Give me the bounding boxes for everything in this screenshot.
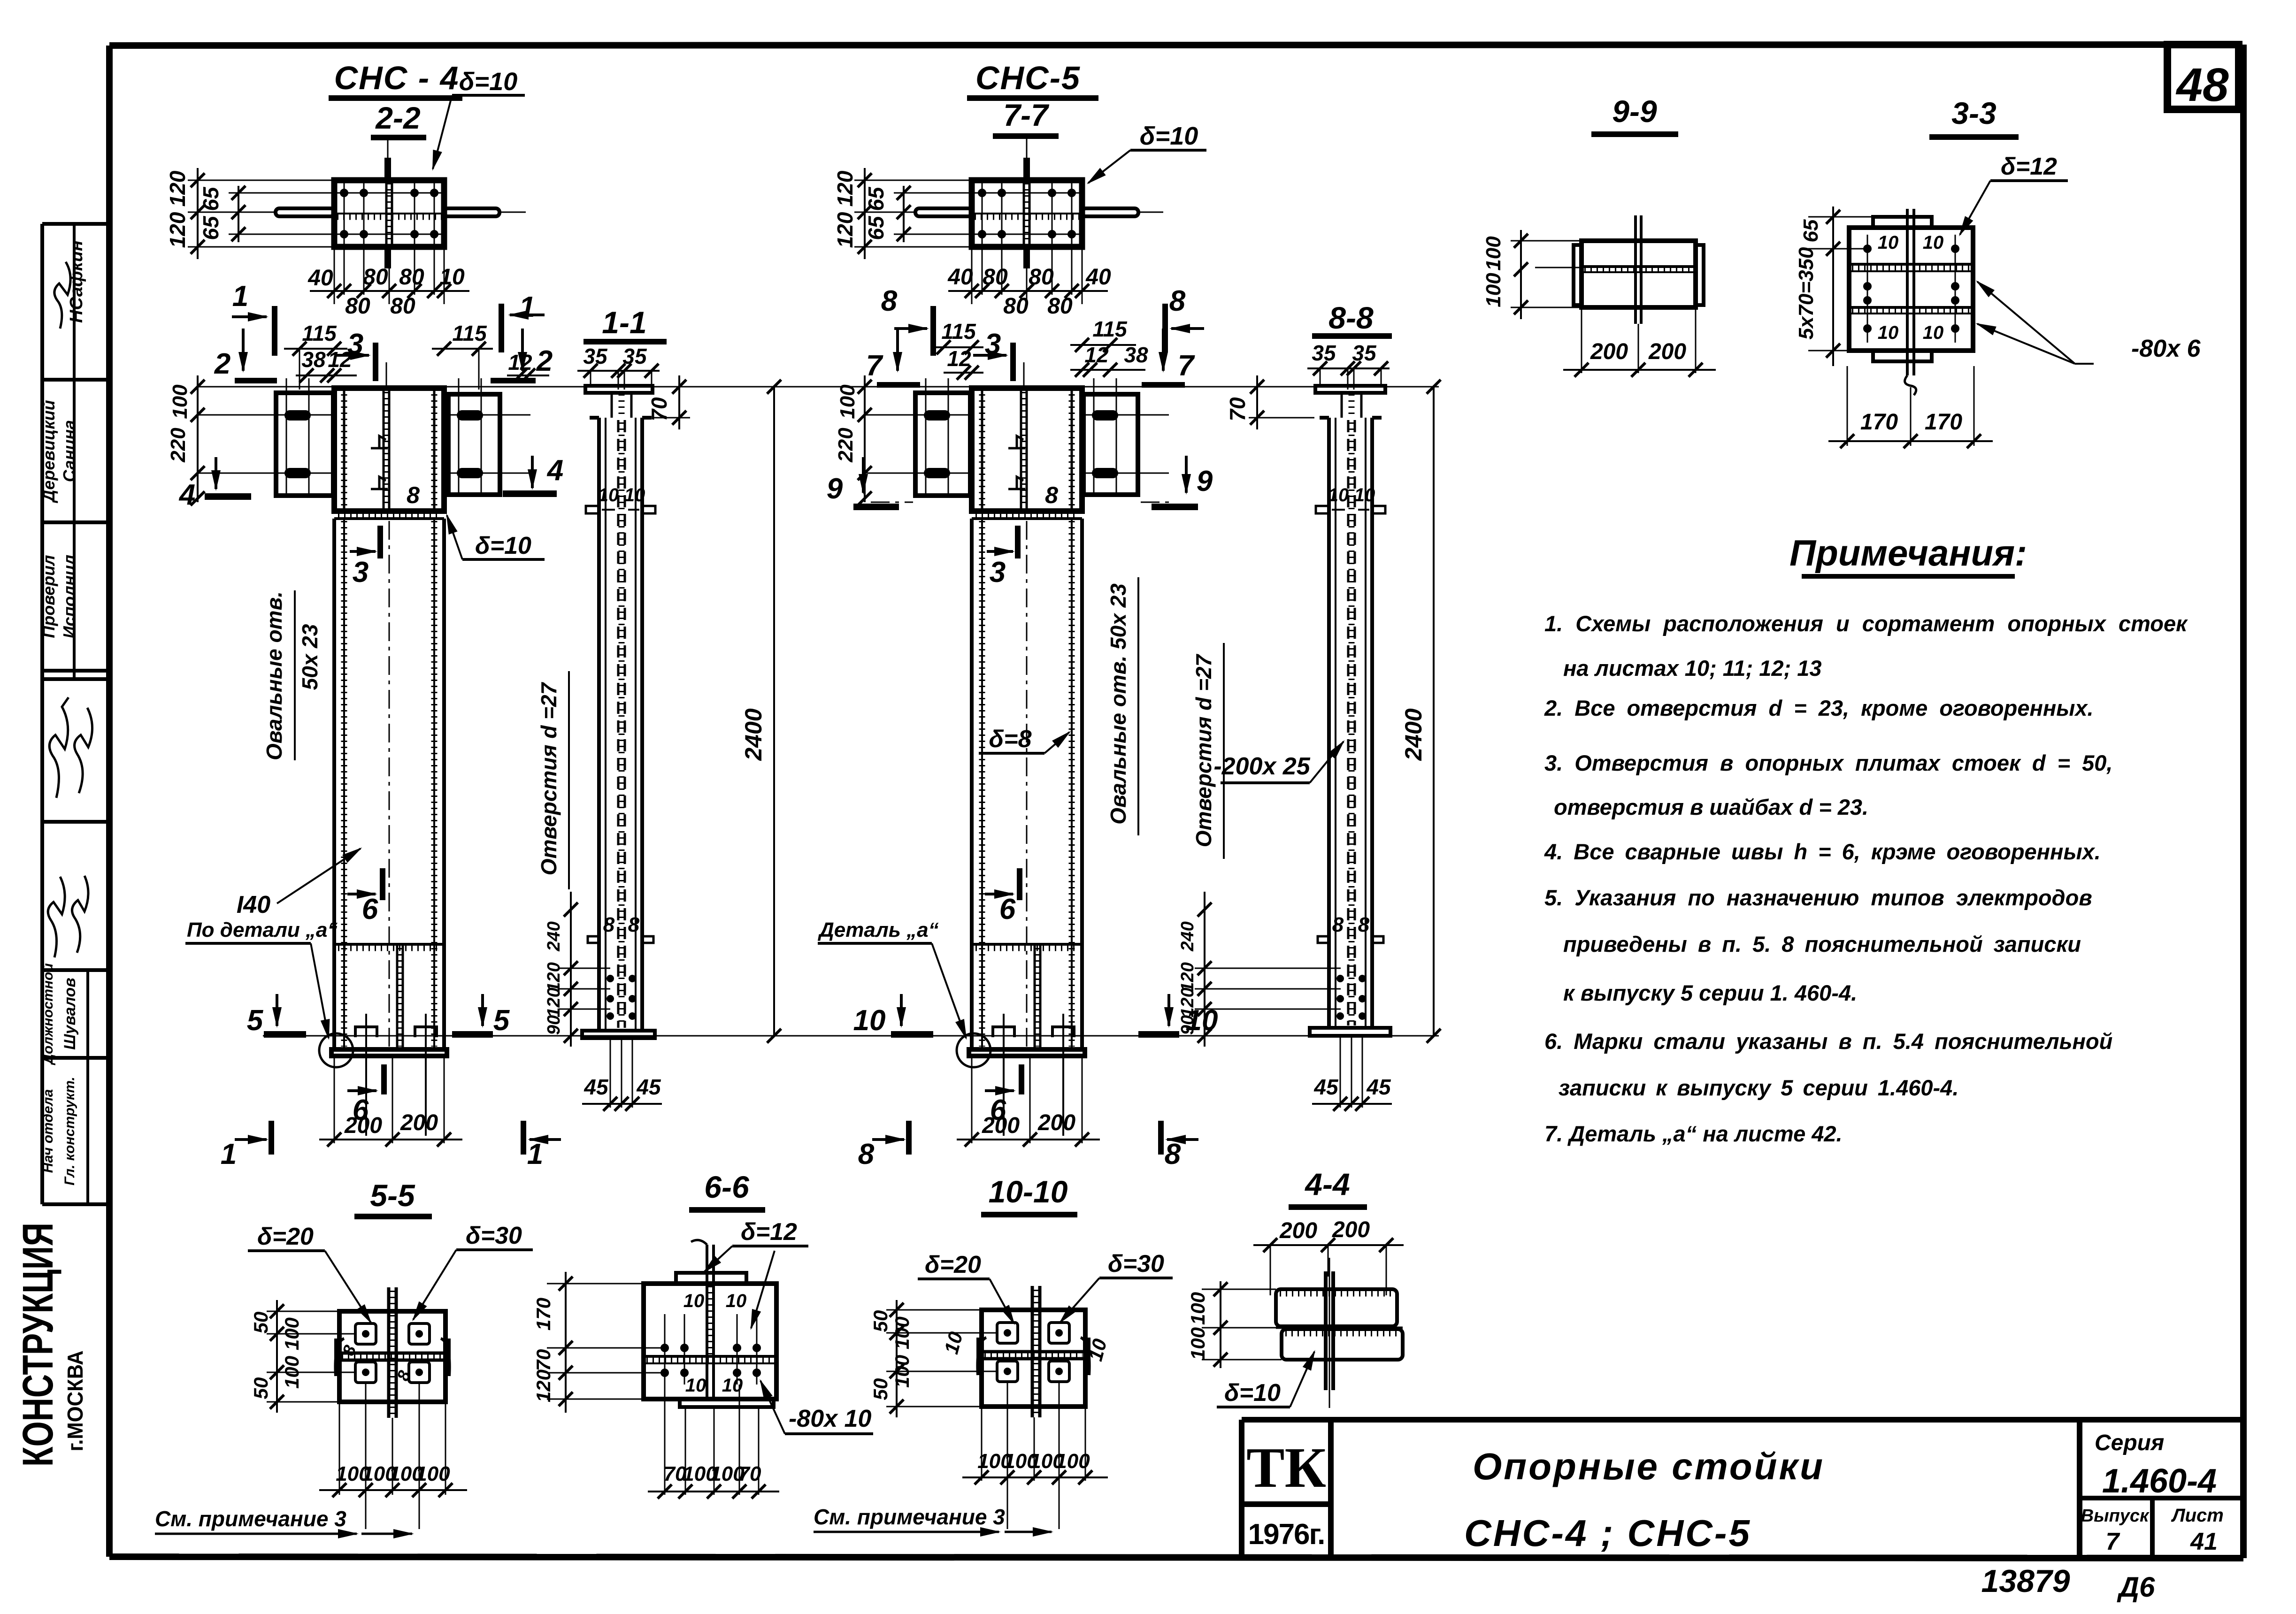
svg-text:Проверил: Проверил xyxy=(39,555,58,638)
4-4 bottom slab xyxy=(1282,1329,1403,1360)
svg-text:I40: I40 xyxy=(237,891,270,918)
page number box 48 xyxy=(2167,45,2239,111)
stamp row lines xyxy=(42,222,109,226)
svg-text:Гл. конструкт.: Гл. конструкт. xyxy=(62,1077,77,1186)
svg-text:7. Деталь „а“ на листе 42: 7. Деталь „а“ на листе 42. xyxy=(1544,1121,1843,1146)
svg-text:48: 48 xyxy=(2175,59,2229,111)
bottom reference line xyxy=(263,1035,1439,1037)
svg-text:240: 240 xyxy=(544,921,564,951)
svg-text:7: 7 xyxy=(866,350,883,382)
svg-text:7: 7 xyxy=(1178,350,1195,382)
svg-text:δ=20: δ=20 xyxy=(925,1251,981,1278)
svg-text:3: 3 xyxy=(990,556,1006,589)
svg-text:δ=30: δ=30 xyxy=(466,1222,522,1249)
svg-text:200: 200 xyxy=(1279,1218,1317,1243)
svg-text:9: 9 xyxy=(1197,465,1213,497)
svg-text:65: 65 xyxy=(864,215,888,240)
neck web xyxy=(1341,393,1343,418)
svg-text:-80х 6: -80х 6 xyxy=(2131,335,2201,362)
3-3 plate stack xyxy=(1849,228,1973,351)
svg-text:Отверстия d =27: Отверстия d =27 xyxy=(537,681,561,875)
svg-text:6-6: 6-6 xyxy=(704,1170,750,1204)
svg-text:8: 8 xyxy=(858,1138,875,1170)
seams xyxy=(1849,263,1973,266)
7-7 base plate xyxy=(972,180,1082,247)
cross vertical bar xyxy=(387,1287,391,1418)
bottom bolt dots xyxy=(607,975,636,1020)
svg-text:35: 35 xyxy=(622,344,647,368)
left dim 100/100 xyxy=(1520,230,1522,319)
detail a circle xyxy=(957,1033,991,1067)
svg-text:10: 10 xyxy=(598,485,619,505)
svg-text:δ=10: δ=10 xyxy=(1224,1379,1281,1407)
svg-text:115: 115 xyxy=(452,321,487,345)
svg-text:3-3: 3-3 xyxy=(1951,96,1996,130)
svg-text:5. Указания по назначени: 5. Указания по назначению типов электрод… xyxy=(1544,885,2092,910)
svg-text:120: 120 xyxy=(833,170,857,207)
left bracket oval holes xyxy=(284,410,311,421)
svg-text:Нач отдела: Нач отдела xyxy=(40,1089,56,1173)
svg-text:200: 200 xyxy=(1037,1110,1075,1135)
svg-text:200: 200 xyxy=(1332,1217,1370,1242)
shaft weld hatch xyxy=(341,521,347,1047)
svg-text:г.МОСКВА: г.МОСКВА xyxy=(63,1351,87,1452)
4-4 top slab xyxy=(1276,1289,1397,1326)
dim 115 left xyxy=(932,346,983,348)
svg-text:10: 10 xyxy=(685,1375,706,1396)
corner washers xyxy=(355,1323,430,1383)
bracket centerline dashes xyxy=(871,502,913,503)
svg-text:220: 220 xyxy=(834,428,857,463)
svg-text:СНС - 4: СНС - 4 xyxy=(334,60,460,96)
svg-text:65: 65 xyxy=(864,186,888,211)
svg-text:80: 80 xyxy=(345,294,370,319)
right bracket ovals xyxy=(457,410,483,421)
svg-text:45: 45 xyxy=(584,1075,609,1099)
svg-text:50: 50 xyxy=(869,1378,891,1400)
svg-text:70: 70 xyxy=(1225,397,1250,421)
svg-text:-200х 25: -200х 25 xyxy=(1213,753,1310,780)
stamp signature row 2 xyxy=(49,697,69,798)
svg-text:2400: 2400 xyxy=(1400,708,1427,761)
svg-text:65: 65 xyxy=(199,215,223,240)
svg-text:записки к выпуску 5 сер: записки к выпуску 5 серии 1.460-4. xyxy=(1559,1075,1958,1100)
bottom flange xyxy=(582,1031,655,1038)
svg-text:10: 10 xyxy=(439,265,465,290)
svg-text:3: 3 xyxy=(353,556,369,589)
2-2 base plate xyxy=(334,180,444,247)
svg-text:6: 6 xyxy=(999,893,1016,926)
svg-text:4-4: 4-4 xyxy=(1304,1167,1350,1201)
left dims 50/100/100/50 xyxy=(276,1300,278,1413)
svg-text:1: 1 xyxy=(232,280,248,313)
10-10 plate xyxy=(982,1310,1085,1407)
right bracket plate xyxy=(1083,394,1138,495)
top tab xyxy=(676,1273,746,1284)
svg-text:8: 8 xyxy=(881,285,898,317)
corner washers xyxy=(997,1323,1069,1382)
anchor rod right xyxy=(444,208,499,216)
svg-text:10: 10 xyxy=(853,1004,886,1037)
svg-text:2-2: 2-2 xyxy=(375,100,421,135)
Seria box xyxy=(2077,1420,2082,1557)
svg-text:1976г.: 1976г. xyxy=(1248,1518,1325,1551)
svg-text:к выпуску 5 серии 1. 4: к выпуску 5 серии 1. 460-4. xyxy=(1563,980,1857,1005)
center web xyxy=(1906,209,1909,375)
dim 115/12 right xyxy=(432,348,493,350)
svg-text:10: 10 xyxy=(726,1291,747,1311)
svg-text:СНС-5: СНС-5 xyxy=(975,60,1081,96)
svg-text:220: 220 xyxy=(167,428,190,463)
svg-text:100 100: 100 100 xyxy=(891,1316,913,1388)
svg-text:6: 6 xyxy=(362,893,378,926)
svg-text:6. Марки стали указаны: 6. Марки стали указаны в п. 5.4 поясните… xyxy=(1544,1029,2112,1054)
anchor rod left xyxy=(276,208,334,216)
svg-text:5х70=350: 5х70=350 xyxy=(1795,247,1818,340)
svg-text:45: 45 xyxy=(1313,1075,1339,1099)
svg-text:Шувалов: Шувалов xyxy=(61,978,79,1050)
svg-text:1: 1 xyxy=(527,1138,543,1170)
anchor rod right xyxy=(1082,208,1138,216)
bottom dim 45/45 xyxy=(1340,1036,1341,1108)
neck web xyxy=(611,393,613,418)
svg-text:δ=10: δ=10 xyxy=(459,68,518,96)
stiffener zone bottom xyxy=(972,943,1082,946)
svg-text:1: 1 xyxy=(221,1138,237,1170)
left dim chain 100/220 xyxy=(864,375,866,502)
svg-text:12: 12 xyxy=(508,350,532,375)
svg-text:См. примечание 3: См. примечание 3 xyxy=(814,1505,1005,1529)
svg-text:5: 5 xyxy=(493,1004,510,1037)
svg-text:СНС-4 ; СНС-5: СНС-4 ; СНС-5 xyxy=(1464,1512,1751,1554)
svg-text:δ=30: δ=30 xyxy=(1108,1250,1164,1277)
mid seam xyxy=(1582,265,1696,268)
7-7 bottom dim chain 40/80/80/40 xyxy=(971,247,973,304)
dim 115/12/38 right xyxy=(1070,344,1136,346)
svg-text:1.460-4: 1.460-4 xyxy=(2102,1462,2217,1500)
svg-text:90: 90 xyxy=(544,1015,564,1035)
bottom bolt dots xyxy=(1336,975,1366,1020)
svg-text:δ=8: δ=8 xyxy=(989,726,1031,753)
left bracket plate xyxy=(915,393,970,496)
svg-text:8: 8 xyxy=(1358,913,1370,936)
svg-text:240: 240 xyxy=(1178,921,1198,951)
svg-text:δ=12: δ=12 xyxy=(741,1218,797,1246)
svg-text:δ=20: δ=20 xyxy=(257,1223,314,1250)
svg-text:на листах 10; 11; 12; 13: на листах 10; 11; 12; 13 xyxy=(1563,656,1822,681)
svg-text:50: 50 xyxy=(250,1377,272,1400)
svg-text:90: 90 xyxy=(1178,1015,1198,1035)
svg-text:Д6: Д6 xyxy=(2117,1571,2155,1603)
svg-text:115: 115 xyxy=(302,321,337,345)
svg-text:10: 10 xyxy=(1878,232,1899,253)
svg-text:5-5: 5-5 xyxy=(370,1178,415,1213)
svg-text:80: 80 xyxy=(1003,294,1029,319)
shaft outline xyxy=(1320,418,1382,1028)
svg-text:Овальные отв. 50х 23: Овальные отв. 50х 23 xyxy=(1106,583,1130,825)
svg-text:8: 8 xyxy=(1165,1138,1181,1170)
svg-text:120: 120 xyxy=(532,1369,554,1402)
plate horizontal weld seam xyxy=(337,213,441,214)
top reference line xyxy=(197,386,1439,388)
svg-text:8-8: 8-8 xyxy=(1328,300,1374,335)
bottom dims 100x4 xyxy=(981,1407,983,1481)
mid line xyxy=(1276,1327,1403,1329)
center web vertical xyxy=(1634,215,1637,324)
svg-text:2400: 2400 xyxy=(740,708,767,761)
svg-text:170: 170 xyxy=(1925,410,1962,435)
svg-text:100: 100 xyxy=(836,384,859,419)
svg-text:200: 200 xyxy=(344,1113,382,1138)
svg-text:40: 40 xyxy=(307,266,333,291)
svg-text:80: 80 xyxy=(983,265,1008,290)
center web vertical xyxy=(706,1245,708,1399)
svg-text:8: 8 xyxy=(1045,482,1058,508)
dim 2400 xyxy=(1433,387,1435,1036)
left dim chain 100/220 xyxy=(197,375,199,502)
bottom dim 170/170 xyxy=(1847,366,1848,446)
detail a circle xyxy=(319,1033,353,1067)
svg-text:38: 38 xyxy=(301,347,326,372)
seam xyxy=(644,1355,776,1358)
svg-text:10: 10 xyxy=(1354,485,1375,505)
end bars xyxy=(1574,245,1582,305)
bottom flange xyxy=(1310,1028,1390,1036)
2-2 bottom dim chain 40/80/80/10 xyxy=(334,247,335,304)
svg-text:40: 40 xyxy=(947,265,973,290)
svg-text:120: 120 xyxy=(833,212,857,248)
6-6 plate xyxy=(644,1284,776,1399)
svg-text:Санина: Санина xyxy=(60,420,79,482)
title block top border xyxy=(1242,1417,2243,1423)
svg-text:2: 2 xyxy=(214,348,230,380)
svg-text:40: 40 xyxy=(1085,265,1111,290)
plate bolts xyxy=(340,189,438,238)
top tab xyxy=(1873,217,1932,228)
svg-text:100: 100 xyxy=(1187,1327,1209,1360)
svg-text:70: 70 xyxy=(532,1349,554,1371)
svg-text:Должностной: Должностной xyxy=(40,963,56,1065)
svg-text:δ=12: δ=12 xyxy=(2001,153,2057,180)
svg-text:Серия: Серия xyxy=(2095,1430,2164,1455)
svg-text:2. Все отверстия d = 23,: 2. Все отверстия d = 23, кроме оговоренн… xyxy=(1544,696,2094,720)
bottom dim 200/200 xyxy=(971,1056,973,1143)
bottom dims 70/100/100/70 xyxy=(664,1385,666,1495)
side angle clips xyxy=(335,1339,344,1376)
svg-text:Овальные отв.: Овальные отв. xyxy=(262,591,286,760)
gusset tab above plate xyxy=(384,158,391,180)
TK box xyxy=(1239,1420,1244,1557)
base plate xyxy=(331,1049,447,1056)
svg-text:38: 38 xyxy=(1124,343,1148,367)
svg-text:8: 8 xyxy=(1332,913,1344,936)
center web xyxy=(1324,1271,1328,1390)
svg-text:10: 10 xyxy=(624,485,645,505)
svg-text:1-1: 1-1 xyxy=(602,305,646,340)
right bracket plate xyxy=(448,394,500,495)
svg-text:8: 8 xyxy=(407,482,420,508)
left bracket plate xyxy=(276,393,333,496)
svg-text:80: 80 xyxy=(390,294,415,319)
left dims 100/100 xyxy=(1220,1281,1221,1368)
svg-text:2: 2 xyxy=(536,345,553,377)
shaft centerline xyxy=(389,521,390,1047)
svg-text:100: 100 xyxy=(1482,236,1505,271)
svg-text:Выпуск: Выпуск xyxy=(2081,1506,2150,1526)
svg-text:δ=10: δ=10 xyxy=(1140,122,1198,150)
svg-text:65: 65 xyxy=(1799,219,1822,242)
9-9 plate body xyxy=(1582,241,1696,307)
svg-text:Отверстия d =27: Отверстия d =27 xyxy=(1191,653,1216,847)
2-2 left dim chain 120/65/65/120 xyxy=(197,168,199,259)
bottom tab xyxy=(1873,351,1932,361)
bottom dim 200/200 xyxy=(334,1056,335,1143)
svg-text:Примечания:: Примечания: xyxy=(1789,532,2027,574)
svg-text:120: 120 xyxy=(544,987,564,1017)
svg-text:9: 9 xyxy=(827,473,843,505)
svg-text:100: 100 xyxy=(415,1462,450,1485)
svg-text:приведены в п. 5. 8 поясни: приведены в п. 5. 8 пояснительной записк… xyxy=(1563,932,2081,956)
svg-text:7-7: 7-7 xyxy=(1003,98,1050,132)
svg-text:13879: 13879 xyxy=(1981,1563,2070,1599)
svg-text:-80х 10: -80х 10 xyxy=(789,1405,871,1432)
column shaft xyxy=(970,519,974,1049)
stamp outer vertical line xyxy=(40,224,44,1204)
svg-text:80: 80 xyxy=(1029,265,1054,290)
stiffener zone bottom xyxy=(334,943,444,946)
svg-text:10: 10 xyxy=(683,1291,705,1311)
svg-text:10: 10 xyxy=(1328,485,1349,505)
stamp signature row 3 xyxy=(48,877,65,957)
weld flag marks in head box xyxy=(371,436,388,448)
left dim 65 / 5x70=350 xyxy=(1832,207,1834,366)
svg-text:7: 7 xyxy=(2106,1528,2120,1555)
svg-text:10: 10 xyxy=(1878,322,1899,343)
dim 115 left xyxy=(284,348,347,350)
svg-text:100 100: 100 100 xyxy=(281,1317,303,1389)
svg-text:Опорные стойки: Опорные стойки xyxy=(1473,1446,1825,1487)
svg-text:10-10: 10-10 xyxy=(989,1174,1068,1209)
svg-text:10: 10 xyxy=(1923,322,1944,343)
column head box xyxy=(334,388,444,511)
svg-text:70: 70 xyxy=(738,1462,761,1485)
svg-text:120: 120 xyxy=(165,170,190,207)
svg-text:3. Отверстия в опорных: 3. Отверстия в опорных плитах стоек d = … xyxy=(1544,750,2112,775)
side angle clips xyxy=(977,1338,986,1375)
svg-text:80: 80 xyxy=(363,265,388,290)
svg-text:4: 4 xyxy=(178,479,195,511)
bolt dots xyxy=(1863,245,1959,333)
svg-text:200: 200 xyxy=(982,1113,1020,1138)
column head box xyxy=(972,388,1082,511)
svg-text:45: 45 xyxy=(636,1075,661,1099)
svg-text:8: 8 xyxy=(603,913,615,936)
bottom tab xyxy=(680,1399,774,1407)
svg-text:80: 80 xyxy=(1047,294,1073,319)
svg-text:35: 35 xyxy=(1312,341,1336,365)
shaft outline xyxy=(590,418,652,1031)
svg-text:10: 10 xyxy=(1923,232,1944,253)
svg-text:65: 65 xyxy=(199,186,223,211)
svg-text:Деревицкий: Деревицкий xyxy=(39,400,58,503)
bottom dims 100x4 xyxy=(339,1402,340,1495)
gusset tabs xyxy=(1023,158,1030,180)
svg-text:ТК: ТК xyxy=(1246,1436,1326,1499)
cross vertical bar xyxy=(1031,1286,1034,1417)
left dim chain 240/120/120/90 xyxy=(570,892,572,1047)
svg-text:170: 170 xyxy=(1860,410,1898,435)
plate center web (vertical) xyxy=(385,180,388,247)
7-7 left dim chain 120/65/65/120 xyxy=(864,168,866,259)
svg-text:1. Схемы расположения и: 1. Схемы расположения и сортамент опорны… xyxy=(1544,611,2188,636)
plate bolt grid lines xyxy=(344,180,345,247)
dim 38/12 left xyxy=(296,375,357,376)
svg-text:45: 45 xyxy=(1366,1075,1391,1099)
svg-text:35: 35 xyxy=(1352,341,1377,365)
svg-text:100: 100 xyxy=(169,384,192,419)
svg-text:100: 100 xyxy=(1482,273,1505,307)
svg-text:120: 120 xyxy=(1178,962,1198,992)
svg-text:8: 8 xyxy=(628,913,640,936)
bottom washers xyxy=(355,1027,377,1037)
svg-text:50: 50 xyxy=(250,1312,272,1334)
top flange xyxy=(1315,386,1385,393)
column shaft xyxy=(332,519,336,1049)
svg-text:50: 50 xyxy=(869,1310,891,1332)
svg-text:120: 120 xyxy=(165,212,190,248)
svg-text:80: 80 xyxy=(399,265,424,290)
svg-text:200: 200 xyxy=(1648,339,1686,364)
svg-text:По детали „а“: По детали „а“ xyxy=(187,918,338,941)
svg-text:200: 200 xyxy=(1590,339,1628,364)
svg-text:Лист: Лист xyxy=(2171,1505,2224,1526)
svg-text:8: 8 xyxy=(1169,285,1186,317)
svg-text:1: 1 xyxy=(519,291,535,323)
cross horizontal bar xyxy=(982,1350,1085,1354)
bolt dots xyxy=(660,1344,761,1377)
bottom dim 45/45 xyxy=(610,1038,611,1108)
svg-text:100: 100 xyxy=(1055,1450,1090,1473)
top flange xyxy=(585,386,653,393)
anchor rod left xyxy=(915,208,972,216)
svg-text:5: 5 xyxy=(247,1004,264,1037)
inner web dashed xyxy=(617,420,620,1028)
svg-text:12: 12 xyxy=(1084,343,1109,367)
cross horizontal bar xyxy=(339,1352,445,1355)
svg-text:50х 23: 50х 23 xyxy=(298,624,322,690)
oval centerlines xyxy=(197,414,334,416)
gusset tab below plate xyxy=(384,247,391,268)
shaft weld hatch xyxy=(979,521,985,1047)
stamp divider vertical xyxy=(73,224,76,678)
svg-text:200: 200 xyxy=(400,1110,438,1135)
svg-text:170: 170 xyxy=(532,1298,554,1331)
svg-text:120: 120 xyxy=(1178,987,1198,1017)
svg-text:Исполнил: Исполнил xyxy=(60,555,79,638)
svg-text:4. Все сварные швы h =: 4. Все сварные швы h = 6, крэме оговорен… xyxy=(1544,839,2101,864)
svg-text:115: 115 xyxy=(941,319,976,344)
center line xyxy=(1535,267,1582,268)
svg-text:См. примечание 3: См. примечание 3 xyxy=(155,1507,346,1531)
svg-text:4: 4 xyxy=(546,454,563,487)
5-5 plate xyxy=(339,1311,445,1402)
svg-text:9-9: 9-9 xyxy=(1612,94,1657,129)
left dims 170 / 70 / 120 xyxy=(565,1272,567,1413)
svg-text:120: 120 xyxy=(544,962,564,992)
left dim chain 240/120/120/90 xyxy=(1204,892,1206,1047)
base plate xyxy=(969,1049,1085,1056)
svg-text:КОНСТРУКЦИЯ: КОНСТРУКЦИЯ xyxy=(14,1223,62,1467)
